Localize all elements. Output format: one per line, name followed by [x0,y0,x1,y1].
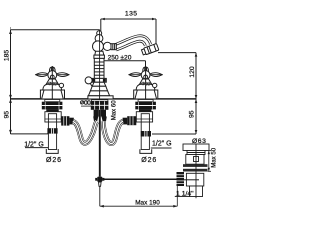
svg-text:95: 95 [4,111,11,119]
svg-text:95: 95 [189,110,196,118]
svg-text:1/2" G: 1/2" G [152,141,172,148]
svg-text:Ø26: Ø26 [46,157,62,164]
svg-text:Max 60: Max 60 [111,100,118,121]
svg-text:Max 50: Max 50 [211,147,218,168]
svg-text:120: 120 [189,66,196,78]
svg-text:250 ±20: 250 ±20 [108,55,132,62]
svg-text:1 1/4": 1 1/4" [176,191,194,198]
svg-text:135: 135 [125,11,138,18]
svg-text:Max 190: Max 190 [135,199,160,206]
svg-text:185: 185 [4,50,11,62]
svg-text:Ø26: Ø26 [141,157,157,164]
svg-text:1/2" G: 1/2" G [24,142,44,149]
svg-text:Ø63: Ø63 [192,138,206,145]
